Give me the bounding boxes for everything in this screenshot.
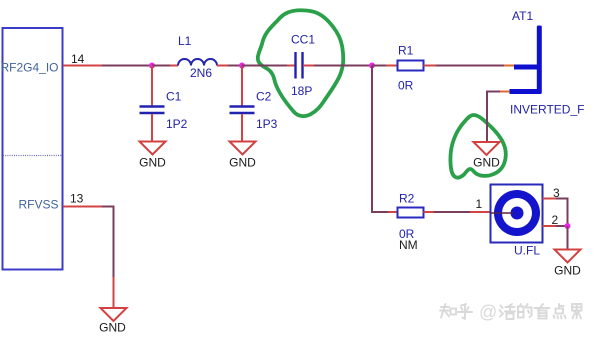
wire pin2 to node D [556, 225, 568, 227]
wire R2 to U.FL [434, 211, 470, 213]
wire pin13 to ground [102, 207, 114, 278]
junction node D [565, 223, 571, 229]
svg-text:R1: R1 [398, 44, 414, 58]
wire node D to GND [567, 226, 569, 250]
pin R1 right [424, 65, 437, 67]
junction node B [239, 63, 245, 69]
svg-text:2: 2 [552, 213, 559, 227]
svg-text:R2: R2 [399, 192, 415, 206]
wire R1 to AT1 [436, 65, 504, 67]
watermark char 活 [500, 304, 516, 319]
wire node C to R1 [372, 65, 386, 67]
inductor L1 [178, 59, 217, 66]
wire pin3 to node D [556, 199, 568, 227]
svg-text:GND: GND [554, 264, 581, 278]
watermark char 知 [440, 304, 456, 318]
pin AT1 feed [504, 65, 514, 67]
capacitor C1 [140, 107, 165, 114]
wire pin14 to node A [102, 65, 152, 67]
wire AT1 to ground [487, 92, 500, 143]
svg-text:13: 13 [70, 192, 84, 206]
pin CC1 right [303, 65, 314, 67]
svg-text:CC1: CC1 [291, 33, 315, 47]
svg-text:RF2G4_IO: RF2G4_IO [0, 61, 58, 75]
junction node A [149, 63, 155, 69]
antenna AT1 [510, 26, 542, 95]
pin R2 right [424, 211, 435, 213]
svg-text:L1: L1 [178, 34, 192, 48]
svg-text:NM: NM [399, 238, 418, 252]
svg-text:C1: C1 [166, 90, 182, 104]
ground GND (C1) [140, 142, 166, 155]
svg-text:U.FL: U.FL [514, 244, 540, 258]
pin U.FL 2 [543, 225, 557, 227]
resistor R2 [398, 208, 424, 218]
svg-text:AT1: AT1 [512, 9, 533, 23]
svg-text:INVERTED_F: INVERTED_F [510, 103, 584, 117]
svg-text:1P3: 1P3 [256, 117, 278, 131]
ground GND (AT1) [474, 142, 500, 155]
green annotation circle around GND (AT1) [450, 115, 505, 178]
capacitor C1 pin top [151, 66, 153, 106]
svg-text:14: 14 [71, 52, 85, 66]
wire node B to CC1 [242, 65, 287, 67]
svg-text:GND: GND [473, 156, 500, 170]
pin L1 right [217, 65, 228, 67]
watermark char 点 [554, 304, 566, 319]
watermark char 的 [518, 304, 532, 318]
green annotation circle around CC1 [258, 10, 343, 116]
svg-text:RFVSS: RFVSS [18, 198, 58, 212]
IC internal dotted divider [3, 155, 62, 157]
junction node C [369, 63, 375, 69]
capacitor CC1 [296, 52, 303, 79]
svg-text:0R: 0R [398, 79, 414, 93]
wire node A to L1 [152, 65, 170, 67]
pin U.FL 1 [470, 211, 490, 213]
pin R1 left [386, 65, 397, 67]
capacitor C1 pin bottom [151, 114, 153, 142]
watermark char 累 [572, 304, 582, 318]
svg-text:18P: 18P [291, 84, 312, 98]
pin AT1 ground stub [500, 91, 510, 93]
pin CC1 left [287, 65, 295, 67]
capacitor C2 pin bottom [241, 114, 243, 142]
pin L1 left [170, 65, 178, 67]
ground GND (pin13) [101, 308, 127, 321]
watermark char 乎 [458, 304, 472, 319]
capacitor C2 [230, 107, 255, 114]
pin U.FL 3 [543, 198, 557, 200]
wire pin13 ground lower segment [113, 277, 115, 308]
svg-text:@: @ [479, 302, 497, 322]
svg-text:1: 1 [476, 197, 483, 211]
pin 14 [63, 65, 102, 67]
pin 13 [63, 206, 102, 208]
resistor R1 [398, 61, 424, 71]
ground GND (C2) [230, 142, 256, 155]
connector U.FL [491, 185, 543, 243]
svg-text:2N6: 2N6 [190, 66, 212, 80]
svg-text:GND: GND [99, 321, 126, 335]
watermark [440, 302, 582, 322]
wire node C down to R2 [372, 66, 388, 213]
ground GND (U.FL) [555, 250, 581, 263]
svg-text:GND: GND [229, 156, 256, 170]
capacitor C2 pin top [241, 66, 243, 106]
svg-text:GND: GND [139, 156, 166, 170]
wire CC1 to node C [314, 65, 372, 67]
wire L1 to node B [228, 65, 242, 67]
svg-text:1P2: 1P2 [166, 117, 188, 131]
IC block body [3, 28, 63, 270]
watermark char 有 [535, 304, 550, 319]
svg-text:C2: C2 [256, 90, 272, 104]
pin R2 left [388, 211, 397, 213]
